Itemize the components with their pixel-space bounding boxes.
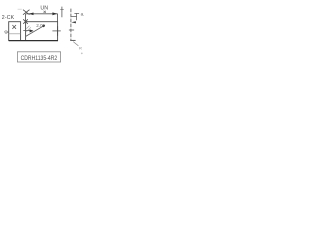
tick top-left	[18, 8, 22, 10]
right view: step	[71, 16, 77, 18]
oblique tick X at body corner	[23, 19, 28, 24]
oblique tick X at left end of dimension line	[23, 10, 30, 15]
hatch strokes	[26, 26, 29, 29]
rotated phi label	[4, 30, 10, 34]
right view: center line	[70, 9, 72, 41]
x mark inside left view	[12, 25, 16, 29]
leader squiggle	[73, 42, 78, 46]
main body rectangle	[26, 22, 58, 41]
tick on left edge line	[60, 9, 63, 11]
right view: left edge line	[61, 7, 63, 18]
tiny mark below UN	[44, 11, 46, 13]
right view bottom corner	[70, 39, 75, 41]
part number box	[17, 52, 60, 62]
svg-text:UN: UN	[40, 5, 48, 11]
diagonal edge with arrow	[26, 25, 45, 36]
faint dot	[81, 53, 83, 55]
background	[0, 0, 90, 65]
arrowhead right	[52, 12, 57, 15]
left view rectangle	[9, 22, 21, 41]
svg-text:2-CK: 2-CK	[2, 15, 15, 21]
svg-text:CDRH1135-4R2: CDRH1135-4R2	[21, 55, 58, 62]
extension line left	[25, 14, 27, 22]
dimension line	[26, 13, 58, 15]
common baseline	[9, 40, 58, 42]
extension line right	[57, 14, 59, 22]
leader arrow inside body	[23, 30, 32, 32]
centerline cross on right edge	[52, 30, 60, 32]
svg-text:a.: a.	[81, 12, 85, 17]
inner seam line	[9, 33, 21, 35]
svg-text:R: R	[79, 45, 82, 50]
arrow on center line	[71, 21, 76, 23]
arrowhead left	[29, 13, 34, 16]
cross tick on center line	[69, 29, 74, 31]
